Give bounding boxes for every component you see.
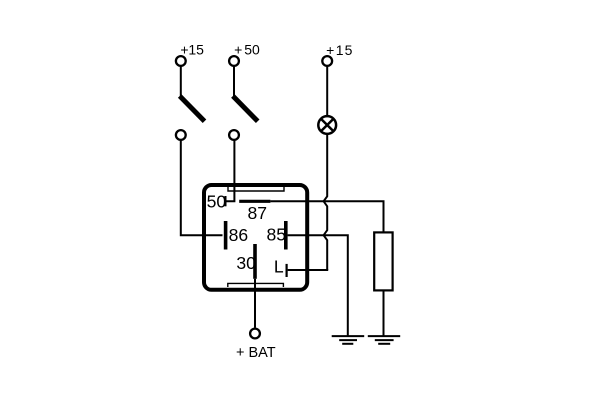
indicator lamp bbox=[318, 116, 336, 134]
svg-text:L: L bbox=[274, 257, 284, 277]
terminal +50 bbox=[229, 56, 239, 66]
svg-text:+ BAT: + BAT bbox=[236, 345, 276, 361]
top mounting notch bbox=[228, 187, 284, 191]
pin 86 contact bar bbox=[224, 221, 228, 250]
pin 87 contact bar bbox=[239, 200, 270, 203]
wire resistor to ground bbox=[383, 290, 385, 336]
pin 85 contact bar bbox=[284, 221, 288, 250]
pin L contact bar bbox=[286, 264, 288, 277]
svg-text:87: 87 bbox=[248, 203, 268, 223]
switch S2 blade bbox=[233, 96, 258, 121]
svg-text:+15: +15 bbox=[326, 42, 353, 58]
svg-text:85: 85 bbox=[267, 225, 287, 245]
switch S1 upper lead wire bbox=[180, 66, 182, 96]
terminal +15 right bbox=[322, 56, 332, 66]
wire terminal to lamp bbox=[326, 66, 328, 115]
switch S2 upper lead wire bbox=[233, 66, 235, 96]
relay box outline bbox=[204, 185, 307, 290]
svg-text:+50: +50 bbox=[234, 42, 260, 58]
wire pin 85 to ground bbox=[288, 235, 348, 336]
bottom mounting notch bbox=[228, 283, 284, 287]
lamp wire down with crossover jogs bbox=[324, 134, 328, 270]
wire pin 87 to resistor bbox=[270, 201, 383, 232]
switch S1 lower terminal bbox=[176, 130, 186, 140]
svg-text:86: 86 bbox=[229, 225, 249, 245]
wire pin L to lamp bbox=[288, 269, 329, 271]
wire S2 lower terminal to pin 50 bbox=[226, 140, 234, 201]
ground symbol left (pin 85) bbox=[332, 336, 365, 344]
terminal +BAT bbox=[250, 329, 260, 339]
terminal +15 left bbox=[176, 56, 186, 66]
pin 50 contact bar bbox=[224, 196, 226, 206]
svg-text:+15: +15 bbox=[180, 42, 204, 58]
svg-text:50: 50 bbox=[207, 191, 227, 211]
pin 30 contact bar bbox=[253, 244, 257, 279]
wire pin 30 to +BAT terminal bbox=[254, 279, 256, 328]
switch S2 lower terminal bbox=[229, 130, 239, 140]
ground symbol right (resistor) bbox=[368, 336, 400, 344]
switch S1 blade bbox=[180, 96, 205, 121]
wire S1 lower terminal to pin 86 bbox=[181, 140, 223, 235]
resistor bbox=[374, 232, 392, 290]
svg-text:30: 30 bbox=[236, 253, 256, 273]
